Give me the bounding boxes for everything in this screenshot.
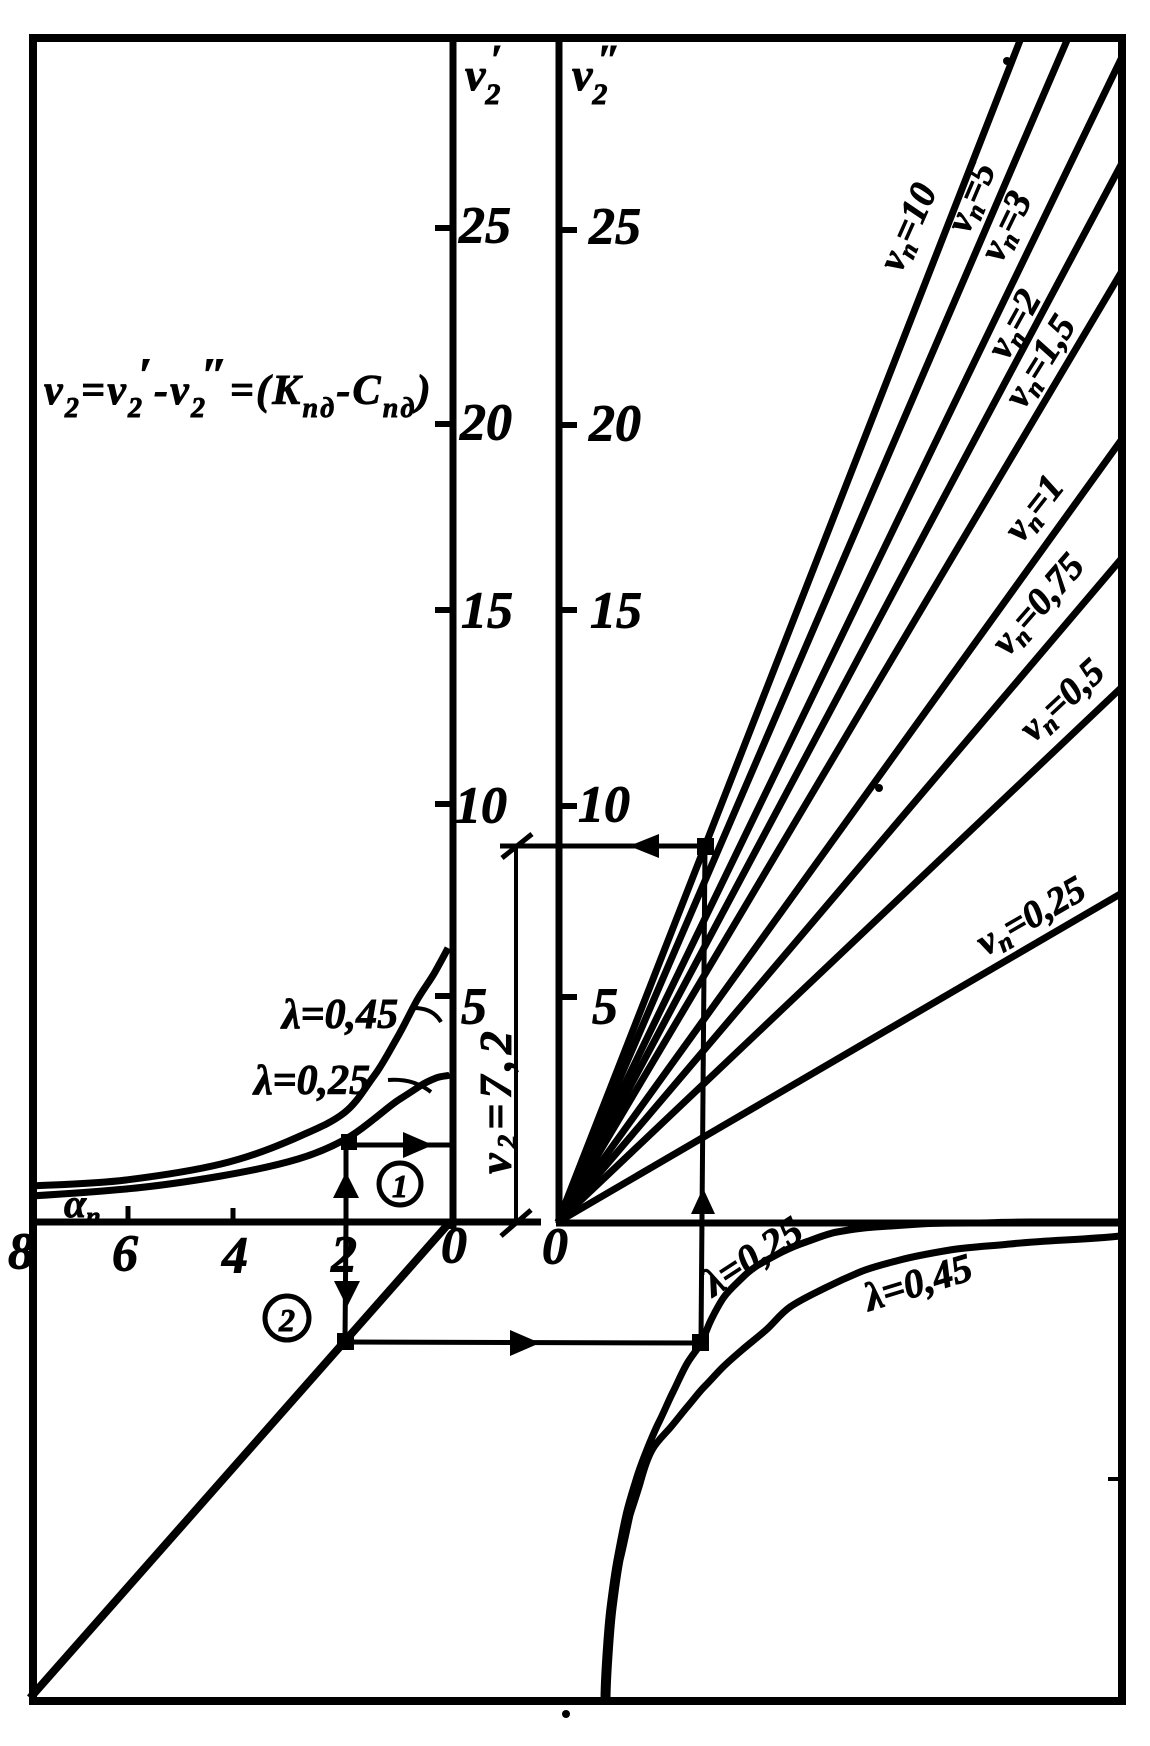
diagonal reflector line bbox=[30, 1222, 450, 1698]
construction vertical arrow below axis (down) bbox=[345, 1222, 346, 1340]
arrowhead up on vertical bbox=[691, 1188, 715, 1214]
junction square on lambda=0,25 bottom right bbox=[692, 1334, 709, 1351]
tick v2'' 25 bbox=[556, 227, 577, 233]
speck near fan bbox=[875, 784, 883, 792]
horizontal axis right quadrant bbox=[556, 1220, 1122, 1227]
svg-text:5: 5 bbox=[592, 979, 618, 1036]
arrowhead left bbox=[629, 834, 659, 858]
bottom right curve lambda=0,45 bbox=[607, 1236, 1120, 1700]
fan line vn=0.25 bbox=[558, 893, 1122, 1222]
construction vertical line x=703 bbox=[701, 846, 705, 1341]
axis v2'' vertical bbox=[556, 36, 563, 1223]
junction square on vn=10 line bbox=[697, 838, 714, 855]
dimension slash bottom bbox=[501, 1210, 531, 1236]
svg-text:20: 20 bbox=[459, 395, 512, 452]
fan line vn=1 bbox=[558, 439, 1122, 1222]
junction square on lambda=0,25 left bbox=[341, 1134, 357, 1150]
svg-text:4: 4 bbox=[221, 1228, 248, 1285]
fan line vn=5 bbox=[558, 38, 1068, 1222]
arrowhead right bbox=[403, 1132, 433, 1158]
construction horizontal arrow to v2' axis bbox=[347, 1143, 452, 1148]
construction horizontal arrow to v2'' axis (left) bbox=[500, 844, 705, 849]
leader line lambda=0,25 bbox=[388, 1080, 431, 1092]
tick v2' 15 bbox=[435, 607, 456, 613]
svg-text:2: 2 bbox=[278, 1302, 295, 1338]
bottom right curve lambda=0,25 bbox=[604, 1222, 1118, 1700]
svg-text:v2=v2′-v2″=(Kпд-Cпд): v2=v2′-v2″=(Kпд-Cпд) bbox=[44, 349, 433, 424]
circled 2 bbox=[265, 1296, 309, 1340]
tick v2' 25 bbox=[435, 225, 456, 231]
fan line vn=10 bbox=[558, 38, 1021, 1222]
left quadrant curve lambda=0,45 bbox=[31, 948, 448, 1186]
svg-text:λ=0,45: λ=0,45 bbox=[280, 992, 398, 1038]
svg-text:8: 8 bbox=[8, 1224, 34, 1281]
arrowhead down bbox=[334, 1281, 360, 1307]
horizontal axis alpha_n (left quadrant) bbox=[29, 1219, 541, 1226]
arrowhead right bottom bbox=[510, 1330, 540, 1356]
tick v2' 5 bbox=[435, 993, 456, 999]
tick v2'' 20 bbox=[556, 422, 577, 428]
speck top right bbox=[1003, 57, 1011, 65]
tick v2' 10 bbox=[435, 801, 456, 807]
svg-text:15: 15 bbox=[461, 583, 513, 640]
svg-text:0: 0 bbox=[542, 1219, 568, 1276]
fan line vn=1.5 bbox=[558, 271, 1122, 1222]
svg-text:25: 25 bbox=[588, 199, 641, 256]
svg-text:10: 10 bbox=[578, 777, 630, 834]
svg-text:6: 6 bbox=[112, 1226, 138, 1283]
fan line vn=2 bbox=[558, 163, 1122, 1222]
svg-text:10: 10 bbox=[455, 778, 507, 835]
svg-text:25: 25 bbox=[458, 198, 511, 255]
tick v2'' 15 bbox=[556, 607, 577, 613]
svg-text:20: 20 bbox=[588, 396, 641, 453]
tick v2'' 5 bbox=[556, 994, 577, 1000]
svg-text:1: 1 bbox=[392, 1168, 408, 1204]
small tick right border bbox=[1108, 1477, 1122, 1481]
construction horizontal arrow bottom bbox=[345, 1342, 701, 1343]
fan line vn=3 bbox=[558, 57, 1122, 1222]
svg-text:15: 15 bbox=[590, 583, 642, 640]
fan line vn=0.75 bbox=[558, 558, 1122, 1222]
alpha_n scale tick 4 bbox=[231, 1208, 236, 1221]
axis v2' vertical bbox=[450, 36, 457, 1229]
leader line lambda=0,45 bbox=[414, 1008, 441, 1022]
svg-text:vn=1: vn=1 bbox=[995, 467, 1074, 551]
left quadrant curve lambda=0,25 bbox=[31, 1075, 450, 1196]
fan line vn=0.5 bbox=[558, 687, 1122, 1222]
svg-text:v2=7,2: v2=7,2 bbox=[470, 1026, 523, 1174]
speck bottom center bbox=[562, 1710, 570, 1718]
tick v2' 20 bbox=[435, 421, 456, 427]
alpha_n scale tick 6 bbox=[126, 1206, 131, 1220]
tick v2'' 10 bbox=[556, 803, 577, 809]
svg-text:v2′: v2′ bbox=[465, 38, 502, 111]
arrowhead up bbox=[333, 1172, 359, 1198]
svg-text:λ=0,25: λ=0,25 bbox=[252, 1058, 370, 1104]
construction vertical arrow at alpha=2 (up) bbox=[344, 1143, 349, 1222]
circled 1 bbox=[379, 1163, 421, 1205]
svg-text:v2″: v2″ bbox=[572, 38, 621, 111]
dimension slash top bbox=[502, 834, 532, 858]
dimension line vertical bbox=[514, 846, 518, 1222]
junction square on diagonal bbox=[337, 1333, 354, 1350]
